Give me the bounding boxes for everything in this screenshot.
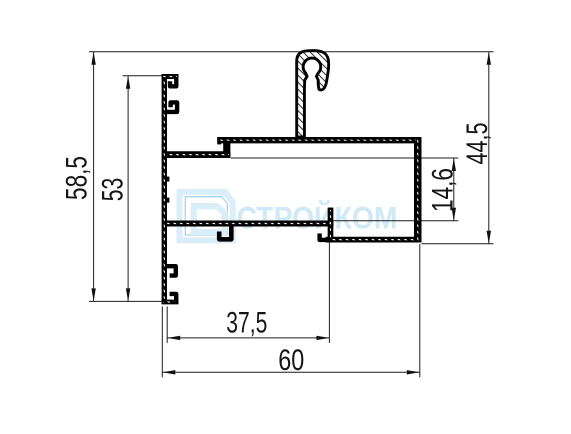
arrow 37,5 left <box>167 336 180 340</box>
arrow 60 left <box>162 370 175 374</box>
left bottom flange <box>162 300 179 305</box>
ext line bottom left <box>89 300 163 302</box>
hook 4 <box>170 294 177 304</box>
upper web <box>165 151 231 158</box>
watermark logo <box>180 192 398 241</box>
lower web <box>165 221 334 227</box>
ext line 53 top <box>123 75 162 77</box>
arrow 14,6 bottom <box>452 208 456 221</box>
ext line 37,5 right <box>328 225 330 343</box>
step connector <box>223 138 230 158</box>
nub 2 <box>167 198 170 203</box>
logo inner ring <box>194 206 225 232</box>
centerline stub <box>330 210 332 240</box>
arrow 58,5 top <box>91 52 95 65</box>
ext line 37,5 left <box>166 307 168 343</box>
hook 6 at bottom wall <box>320 234 331 240</box>
arrow 58,5 bottom <box>91 288 95 301</box>
centerline left bottom flange <box>163 301 177 303</box>
top extension line <box>89 51 494 53</box>
arrow 60 right <box>407 370 420 374</box>
small hooks (solid) <box>166 79 331 305</box>
svg-text:СТРОЙКОМ: СТРОЙКОМ <box>237 200 398 236</box>
main top flange <box>217 137 421 143</box>
ext line 14,6 top <box>231 157 458 159</box>
bottom wall <box>326 237 422 243</box>
nub 1 <box>167 177 170 182</box>
flange left lip <box>217 137 221 144</box>
ext line 44,5 bottom <box>422 243 494 245</box>
centerline right wall <box>417 139 419 241</box>
dim line 60 <box>162 371 420 373</box>
centerline left top flange <box>163 76 177 78</box>
right wall <box>414 137 422 243</box>
arrow 53 top <box>126 76 130 89</box>
hook 3 <box>166 266 176 275</box>
profile body: walls drawn as black bands <box>162 74 422 304</box>
logo middle ring <box>185 197 227 235</box>
dimension texts <box>61 123 494 378</box>
svg-text:60: 60 <box>278 344 304 377</box>
centerline main top flange <box>219 139 416 141</box>
hook 2 <box>166 102 177 112</box>
svg-text:14,6: 14,6 <box>426 168 459 212</box>
dim line 44,5 <box>488 52 490 244</box>
svg-text:44,5: 44,5 <box>461 123 494 165</box>
svg-text:58,5: 58,5 <box>61 156 94 200</box>
svg-text:53: 53 <box>97 178 130 202</box>
svg-text:37,5: 37,5 <box>226 306 267 339</box>
arrow 53 bottom <box>126 288 130 301</box>
ext line 14,6 bottom <box>330 220 458 222</box>
ext line 60 right <box>419 244 421 377</box>
stub <box>328 208 334 243</box>
ext line 60 left <box>161 307 163 378</box>
dimension thin lines <box>89 52 494 378</box>
hook 1 top <box>170 79 176 87</box>
arrow 14,6 top <box>452 158 456 171</box>
centerline upper web <box>167 154 229 156</box>
centerline bottom wall <box>328 239 415 241</box>
white hatch-gap centerlines <box>163 77 418 303</box>
dim line 53 <box>127 76 129 302</box>
hook 5 under web <box>219 226 231 239</box>
crook hook at top <box>297 51 329 137</box>
arrow 37,5 right <box>316 336 329 340</box>
dim line 14,6 <box>453 158 455 221</box>
dim line 58,5 <box>93 52 95 302</box>
arrow 44,5 bottom <box>487 231 491 244</box>
centerline lower web <box>167 223 331 225</box>
dimension arrows <box>91 52 491 375</box>
logo outer ring <box>180 192 233 241</box>
dim line 37,5 <box>167 337 329 339</box>
centerline left wall <box>163 80 165 299</box>
wall nubs <box>167 177 170 203</box>
left wall <box>162 74 167 304</box>
arrow 44,5 top <box>487 52 491 65</box>
left top flange <box>162 74 179 79</box>
